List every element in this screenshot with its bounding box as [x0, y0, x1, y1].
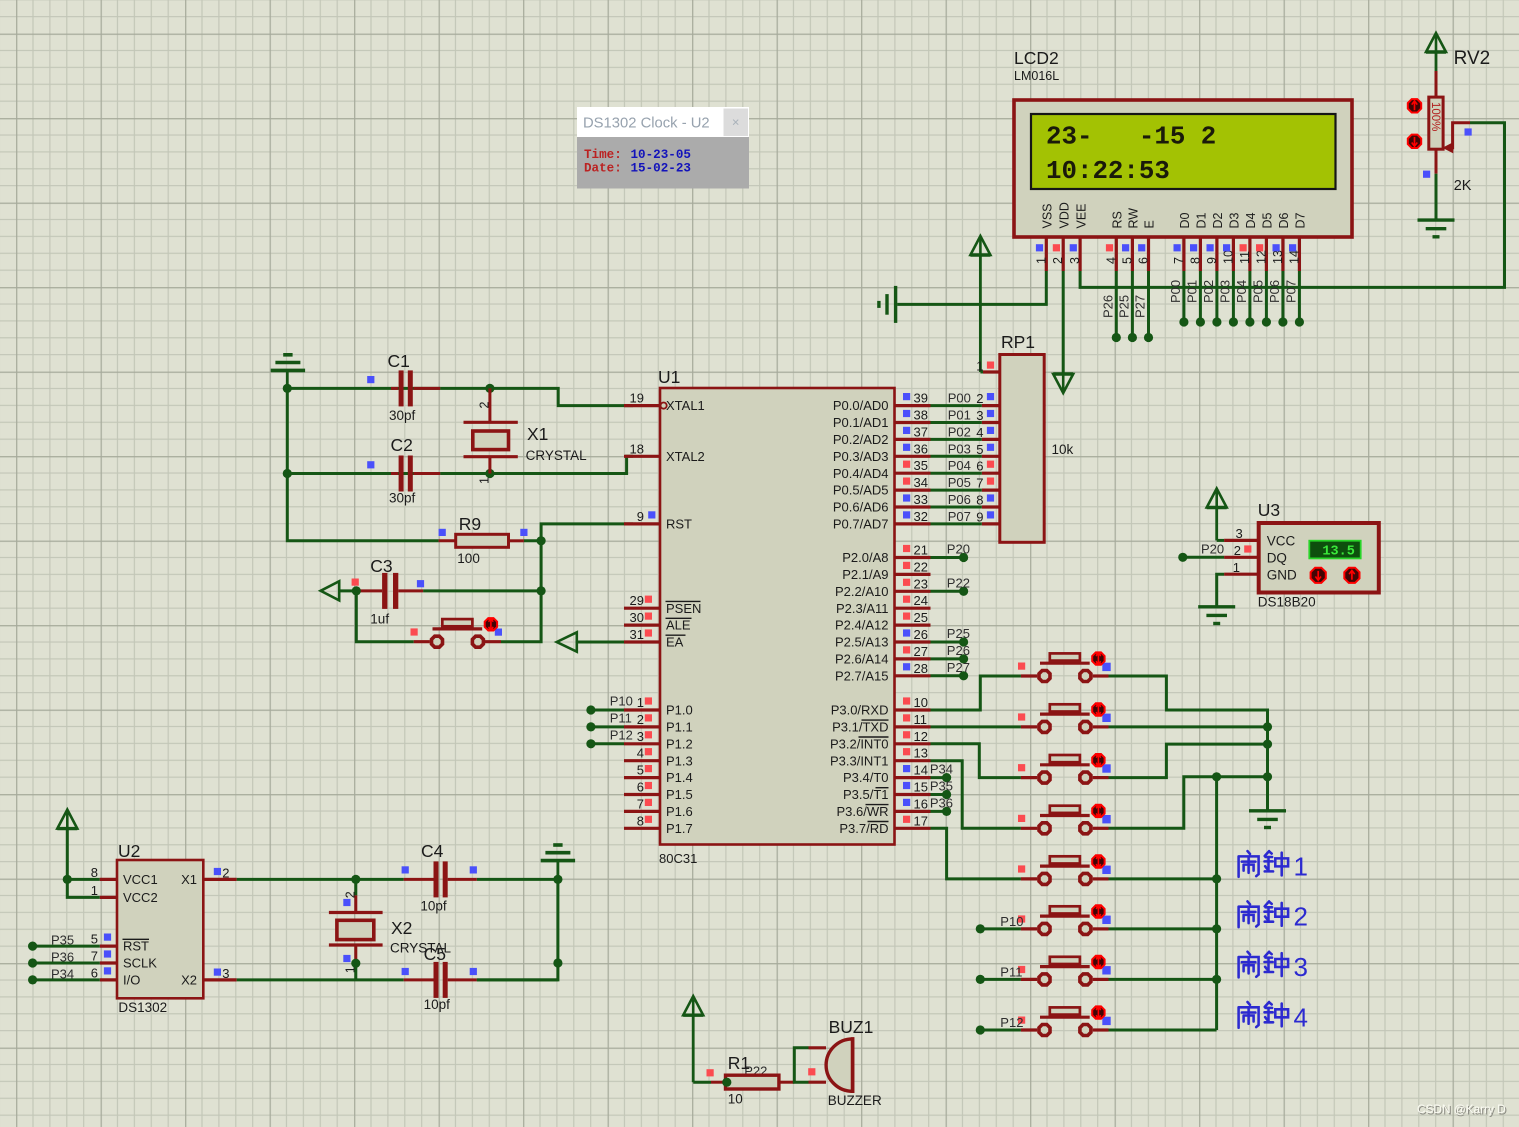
svg-text:P3.7/RD: P3.7/RD	[839, 821, 888, 836]
svg-text:4: 4	[1294, 1002, 1308, 1032]
resistor R9	[439, 529, 528, 548]
push button 2	[1018, 703, 1111, 732]
LCD pin 6 (E)	[1137, 220, 1157, 271]
U2 pin 2 (X1)	[181, 865, 237, 887]
svg-text:3: 3	[637, 729, 644, 744]
LCD pin 7 (D0)	[1172, 212, 1192, 271]
svg-text:P03: P03	[948, 441, 971, 456]
U3 pin 3 (VCC)	[1224, 526, 1295, 549]
wire/net P35 (U1 right)	[930, 779, 953, 800]
svg-text:LM016L: LM016L	[1014, 69, 1059, 83]
U1 pin 12 (P3.2/INT0)	[830, 729, 931, 752]
red square (C3 node)	[352, 579, 359, 586]
U1 pin 4 (P1.3)	[624, 746, 693, 769]
wire C3 row	[423, 589, 541, 592]
svg-text:D6: D6	[1277, 212, 1291, 228]
svg-text:2K: 2K	[1454, 178, 1472, 194]
svg-text:1: 1	[1233, 560, 1240, 575]
wire ground bus A	[1266, 727, 1269, 810]
svg-text:15: 15	[914, 780, 928, 795]
svg-text:P0.2/AD2: P0.2/AD2	[833, 432, 889, 447]
svg-text:7: 7	[976, 476, 983, 491]
wire U3 GND to ground	[1217, 574, 1224, 606]
RP1 pin 5	[976, 442, 1000, 457]
svg-text:2: 2	[222, 865, 229, 880]
push button 3	[1018, 754, 1111, 783]
U1 pin 36 (P0.3/AD3)	[833, 441, 931, 464]
junction (bus b5)	[1212, 874, 1221, 883]
wire RV2 to ground	[1435, 174, 1438, 220]
svg-text:6: 6	[976, 459, 983, 474]
svg-text:CSDN @Karry D: CSDN @Karry D	[1417, 1102, 1506, 1116]
svg-text:39: 39	[914, 391, 928, 406]
wire/net P26 (U1 right)	[931, 643, 970, 664]
svg-text:1uf: 1uf	[370, 612, 389, 627]
svg-text:26: 26	[914, 627, 928, 642]
wire power to VCC1/VCC2	[67, 829, 100, 880]
svg-text:27: 27	[914, 644, 928, 659]
wire VEE to RV2 wiper	[1080, 123, 1504, 288]
LCD pin 13 (D6)	[1271, 212, 1291, 271]
wire P3.0 to button1	[931, 676, 1021, 710]
svg-text:Time:: Time:	[584, 148, 622, 162]
wire ground rail down	[477, 879, 558, 980]
svg-text:RS: RS	[1111, 211, 1125, 228]
wire button8 right	[1109, 1029, 1217, 1032]
svg-text:P0.7/AD7: P0.7/AD7	[833, 517, 889, 532]
svg-text:P04: P04	[948, 458, 971, 473]
LCD pin 10 (D3)	[1221, 212, 1241, 271]
junction (C3 right)	[537, 586, 546, 595]
U1 pin 21 (P2.0/A8)	[842, 543, 930, 566]
net label alarm 闹钟3	[1239, 952, 1308, 982]
push button 4	[1018, 805, 1111, 834]
wire/net P04 (LCD D4)	[1234, 271, 1255, 327]
svg-text:P3.5/T1: P3.5/T1	[843, 787, 889, 802]
ground (buttons)	[1249, 809, 1286, 812]
svg-text:P20: P20	[1201, 542, 1224, 557]
wire/net P06 (LCD D6)	[1267, 271, 1288, 327]
wire/net P25 (U1 right)	[931, 626, 970, 647]
U1 pin 30 (ALE)	[624, 610, 692, 633]
wire power to RP1 pin1	[980, 371, 983, 374]
wire/net P11 (button)	[976, 964, 1023, 984]
wire U1 P0.5 to RP1 / net P05	[931, 475, 982, 490]
U1 pin 9 (RST)	[624, 509, 692, 532]
wire button7 right	[1109, 978, 1217, 981]
wire C1 row to XTAL1	[287, 387, 440, 390]
svg-text:EA: EA	[666, 635, 684, 650]
junction (bus b6)	[1212, 924, 1221, 933]
U1 pin 8 (P1.7)	[624, 813, 693, 836]
wire P3.2 to button3	[931, 744, 1021, 778]
svg-text:D5: D5	[1261, 212, 1275, 228]
wire U1 P0.7 to RP1 / net P07	[931, 509, 982, 524]
capacitor C5	[402, 962, 477, 998]
junction (R9 node)	[537, 536, 546, 545]
wire button3 right	[1109, 744, 1268, 778]
svg-text:P06: P06	[948, 492, 971, 507]
wire/net P10 (button)	[976, 914, 1024, 934]
U1 pin 26 (P2.5/A13)	[835, 627, 931, 650]
svg-text:Date:: Date:	[584, 162, 622, 176]
U3 pin 2 (DQ)	[1224, 543, 1287, 566]
svg-text:X1: X1	[181, 872, 197, 887]
U1 pin 11 (P3.1/TXD)	[832, 712, 930, 735]
U1 pin 7 (P1.6)	[624, 796, 693, 819]
svg-text:P0.1/AD1: P0.1/AD1	[833, 415, 889, 430]
junction (bus b7)	[1212, 975, 1221, 984]
U2 pin 6 (I/O)	[91, 965, 141, 987]
popup window DS1302 Clock - U2	[577, 107, 749, 189]
junction (gnd/X1 row)	[553, 875, 562, 884]
U3 down button	[1311, 568, 1326, 583]
svg-text:RST: RST	[666, 517, 692, 532]
svg-text:2: 2	[478, 402, 492, 409]
wire power to U3 VCC	[1217, 539, 1224, 542]
svg-text:1: 1	[637, 695, 644, 710]
svg-text:10:22:53: 10:22:53	[1046, 157, 1170, 186]
svg-text:RW: RW	[1127, 208, 1141, 229]
wire/net P25 (LCD)	[1116, 271, 1137, 342]
LCD pin 3 (VEE)	[1068, 203, 1088, 271]
U1 pin 39 (P0.0/AD0)	[833, 391, 931, 414]
svg-text:P04: P04	[1234, 280, 1249, 303]
svg-text:D1: D1	[1195, 212, 1209, 228]
svg-text:23: 23	[914, 576, 928, 591]
wire/net P01 (LCD D1)	[1184, 271, 1205, 327]
U2 pin 8 (VCC1)	[91, 865, 158, 887]
wire/net P07 (LCD D7)	[1283, 271, 1304, 327]
RP1 pin 3	[976, 408, 1000, 423]
svg-text:P22: P22	[947, 575, 970, 590]
wire/net P22 (U1 right)	[931, 575, 970, 596]
svg-text:22: 22	[914, 559, 928, 574]
svg-text:P0.5/AD5: P0.5/AD5	[833, 483, 889, 498]
svg-text:P3.2/INT0: P3.2/INT0	[830, 736, 889, 751]
svg-text:P06: P06	[1267, 280, 1282, 303]
svg-text:6: 6	[637, 780, 644, 795]
junction (C2/X1)	[485, 469, 494, 478]
svg-text:VCC2: VCC2	[123, 890, 158, 905]
blue square (RV2 wiper)	[1465, 128, 1472, 135]
RP1 pin 1	[976, 359, 1000, 374]
svg-text:P0.0/AD0: P0.0/AD0	[833, 398, 889, 413]
svg-text:1: 1	[976, 359, 983, 374]
U3 temperature display	[1309, 541, 1360, 560]
svg-text:29: 29	[630, 593, 644, 608]
svg-text:8: 8	[637, 813, 644, 828]
U1 pin 10 (P3.0/RXD)	[831, 695, 931, 718]
LCD pin 12 (D5)	[1254, 212, 1274, 271]
ground (LCD VSS)	[894, 286, 897, 323]
svg-text:11: 11	[914, 712, 928, 727]
svg-text:P05: P05	[948, 475, 971, 490]
svg-text:25: 25	[914, 610, 928, 625]
capacitor C2	[367, 456, 440, 492]
U1 pin 19 (XTAL1)	[624, 391, 705, 414]
svg-text:38: 38	[914, 408, 928, 423]
U1 pin 35 (P0.4/AD4)	[833, 458, 931, 481]
ground (RV2)	[1418, 218, 1455, 221]
RP1 pin 9	[976, 509, 1000, 524]
wire/net P20 (U3 DQ)	[1178, 542, 1224, 562]
LCD pin 5 (RW)	[1120, 208, 1140, 271]
wire P3.7 to button5	[931, 828, 1021, 879]
U1 pin 17 (P3.7/RD)	[839, 813, 930, 836]
wire U1 P0.3 to RP1 / net P03	[931, 441, 982, 456]
wire/net P12 (button)	[976, 1015, 1024, 1035]
LCD pin 14 (D7)	[1287, 212, 1307, 271]
junction (bus b4)	[1263, 772, 1272, 781]
svg-text:16: 16	[914, 796, 928, 811]
wire P3.3 to button4	[931, 761, 1021, 829]
svg-text:34: 34	[914, 475, 928, 490]
svg-text:13: 13	[914, 746, 928, 761]
svg-text:9: 9	[1205, 257, 1219, 264]
lcd screen	[1031, 114, 1336, 189]
svg-text:P1.5: P1.5	[666, 787, 693, 802]
svg-text:33: 33	[914, 492, 928, 507]
svg-text:8: 8	[1188, 257, 1202, 264]
svg-text:P1.0: P1.0	[666, 703, 693, 718]
push button 1	[1018, 652, 1111, 681]
wire/net P27 (U1 right)	[931, 660, 970, 681]
svg-text:4: 4	[1104, 257, 1118, 264]
mcu U1 body	[660, 388, 895, 845]
svg-text:35: 35	[914, 458, 928, 473]
svg-text:10-23-05: 10-23-05	[631, 148, 691, 162]
U1 pin 37 (P0.2/AD2)	[833, 424, 931, 447]
svg-text:P05: P05	[1250, 280, 1265, 303]
svg-text:P3.6/WR: P3.6/WR	[836, 804, 888, 819]
svg-text:3: 3	[1235, 526, 1242, 541]
svg-text:P3.1/TXD: P3.1/TXD	[832, 720, 888, 735]
svg-text:P2.6/A14: P2.6/A14	[835, 652, 889, 667]
ground (U3)	[1198, 605, 1235, 608]
svg-text:P02: P02	[1201, 280, 1216, 303]
U1 pin 3 (P1.2)	[624, 729, 693, 752]
svg-text:17: 17	[914, 813, 928, 828]
svg-text:18: 18	[630, 441, 644, 456]
junction (VCC1)	[63, 875, 72, 884]
sensor U3 body	[1259, 523, 1379, 593]
push button 6	[1018, 905, 1111, 934]
junction (X2 bottom)	[351, 959, 360, 968]
wire left bus (gnd to R9)	[287, 388, 438, 540]
svg-text:CRYSTAL: CRYSTAL	[526, 448, 588, 463]
svg-text:VCC: VCC	[1267, 534, 1296, 549]
U1 pin 14 (P3.4/T0)	[843, 763, 931, 786]
svg-text:P26: P26	[947, 643, 970, 658]
svg-text:P00: P00	[1168, 280, 1183, 303]
svg-text:5: 5	[976, 442, 983, 457]
RP1 pin 8	[976, 493, 1000, 508]
input terminal arrow (C3)	[321, 581, 357, 600]
svg-text:32: 32	[914, 509, 928, 524]
svg-text:12: 12	[914, 729, 928, 744]
svg-text:X1: X1	[527, 424, 548, 444]
svg-text:37: 37	[914, 424, 928, 439]
U1 pin 33 (P0.6/AD6)	[833, 492, 931, 515]
svg-text:P2.3/A11: P2.3/A11	[836, 601, 889, 616]
svg-text:PSEN: PSEN	[666, 601, 701, 616]
svg-text:5: 5	[1120, 257, 1134, 264]
LCD pin 2 (VDD)	[1051, 202, 1071, 271]
svg-text:GND: GND	[1267, 567, 1297, 582]
svg-text:P25: P25	[947, 626, 970, 641]
U3 pin 1 (GND)	[1224, 560, 1297, 583]
svg-text:P12: P12	[610, 727, 633, 742]
U2 pin 5 (RST)	[91, 932, 149, 954]
watermark CSDN @Karry D	[1417, 1102, 1507, 1117]
svg-text:X2: X2	[391, 918, 412, 938]
U1 pin 25 (P2.4/A12)	[835, 610, 931, 633]
wire X2 bottom to row	[354, 963, 357, 980]
svg-text:P27: P27	[1133, 295, 1148, 318]
svg-text:P2.2/A10: P2.2/A10	[835, 584, 889, 599]
wire U1 P0.1 to RP1 / net P01	[931, 408, 982, 423]
wire reset button to R9 node	[501, 591, 541, 642]
svg-text:30: 30	[630, 610, 644, 625]
svg-text:10: 10	[914, 695, 928, 710]
svg-text:D0: D0	[1178, 212, 1192, 228]
net label alarm 闹钟1	[1239, 851, 1308, 881]
power arrow down (LCD VDD)	[1053, 271, 1073, 393]
svg-text:24: 24	[914, 593, 928, 608]
power arrow (RP1 pin1)	[970, 236, 990, 372]
U1 pin 32 (P0.7/AD7)	[833, 509, 931, 532]
svg-text:6: 6	[91, 965, 98, 980]
junction (C3 left)	[352, 586, 361, 595]
capacitor C4	[402, 861, 477, 897]
wire/net P02 (LCD D2)	[1201, 271, 1222, 327]
wire U2 X2 row	[237, 978, 404, 981]
U1 pin 1 (P1.0)	[624, 695, 693, 718]
svg-text:13: 13	[1271, 250, 1285, 264]
svg-text:100%: 100%	[1429, 102, 1441, 131]
svg-text:SCLK: SCLK	[123, 956, 157, 971]
svg-text:1: 1	[91, 883, 98, 898]
push button 5	[1018, 855, 1111, 884]
U1 pin 38 (P0.1/AD1)	[833, 408, 931, 431]
wire/net P34 (U1 right)	[930, 762, 953, 783]
svg-text:P12: P12	[1000, 1015, 1023, 1030]
wire EA arrow to pin31	[577, 641, 633, 644]
junction (gnd rail)	[553, 958, 562, 967]
svg-text:P10: P10	[1000, 914, 1023, 929]
svg-text:R1: R1	[728, 1053, 750, 1073]
svg-text:LCD2: LCD2	[1014, 48, 1059, 68]
wire R9 to RST	[524, 539, 541, 542]
crystal X2	[329, 879, 383, 973]
svg-text:3: 3	[222, 966, 229, 981]
wire button5 right	[1109, 877, 1217, 880]
svg-text:P1.2: P1.2	[666, 736, 693, 751]
svg-text:9: 9	[637, 509, 644, 524]
blue square (RV2 bottom)	[1423, 171, 1430, 178]
svg-text:DS1302: DS1302	[118, 1000, 167, 1015]
svg-text:P34: P34	[51, 966, 74, 981]
svg-text:DQ: DQ	[1267, 550, 1287, 565]
U3 up button	[1344, 568, 1359, 583]
svg-text:19: 19	[630, 391, 644, 406]
crystal X1	[464, 388, 518, 484]
svg-text:36: 36	[914, 441, 928, 456]
ground (oscillator rail)	[541, 845, 575, 879]
buzzer BUZ1	[809, 1037, 853, 1093]
svg-text:2: 2	[976, 391, 983, 406]
lcd LCD2 body	[1014, 100, 1352, 237]
wire R9 node down to C3 row	[540, 541, 543, 591]
wire button4 right	[1109, 777, 1268, 829]
U1 pin 18 (XTAL2)	[624, 441, 705, 464]
wire/net P36 (U1 right)	[930, 795, 953, 816]
svg-text:1: 1	[1294, 851, 1308, 881]
net label alarm 闹钟4	[1239, 1002, 1308, 1032]
U1 pin 23 (P2.2/A10)	[835, 576, 931, 599]
wire P3.1 to button2	[931, 725, 1021, 728]
wire button6 right	[1109, 927, 1217, 930]
svg-text:4: 4	[976, 425, 983, 440]
svg-text:P2.1/A9: P2.1/A9	[842, 567, 888, 582]
svg-text:100: 100	[457, 551, 480, 566]
svg-text:14: 14	[1287, 250, 1301, 264]
power arrow (BUZ1)	[683, 996, 703, 1082]
svg-text:80C31: 80C31	[659, 851, 697, 866]
wire button1 right	[1109, 676, 1268, 727]
svg-text:1: 1	[1034, 257, 1048, 264]
svg-text:2: 2	[637, 712, 644, 727]
LCD pin 9 (D2)	[1205, 212, 1225, 271]
LCD pin 8 (D1)	[1188, 212, 1208, 271]
svg-text:2: 2	[343, 891, 357, 898]
wire/net P34 (U2)	[28, 966, 100, 984]
svg-text:7: 7	[91, 949, 98, 964]
U2 pin 3 (X2)	[181, 966, 237, 988]
svg-text:3: 3	[1068, 257, 1082, 264]
wire U1 P0.6 to RP1 / net P06	[931, 492, 982, 507]
svg-text:P34: P34	[930, 762, 953, 777]
svg-text:C4: C4	[421, 841, 444, 861]
wire/net P03 (LCD D3)	[1217, 271, 1238, 327]
junction (bus b3)	[1263, 740, 1272, 749]
wire buzzer pins	[794, 1048, 808, 1082]
svg-text:XTAL1: XTAL1	[666, 398, 705, 413]
wire U1 P0.2 to RP1 / net P02	[931, 424, 982, 439]
svg-text:28: 28	[914, 661, 928, 676]
svg-text:P26: P26	[1100, 295, 1115, 318]
U1 pin 31 (EA)	[624, 627, 686, 650]
U1 pin 29 (PSEN)	[624, 593, 701, 616]
svg-text:10k: 10k	[1052, 442, 1074, 457]
svg-text:8: 8	[976, 493, 983, 508]
svg-text:P25: P25	[1116, 295, 1131, 318]
svg-text:ALE: ALE	[666, 618, 691, 633]
capacitor C1	[367, 370, 440, 406]
junction (bus/C2)	[283, 469, 292, 478]
svg-text:3: 3	[1294, 952, 1308, 982]
svg-text:C5: C5	[424, 944, 446, 964]
wire U1 P0.4 to RP1 / net P04	[931, 458, 982, 473]
svg-text:P0.3/AD3: P0.3/AD3	[833, 449, 889, 464]
wire C2 row to XTAL2	[287, 472, 440, 475]
RV2 down button	[1408, 135, 1421, 148]
resistor pack RP1 body	[1000, 355, 1044, 543]
svg-text:P36: P36	[51, 950, 74, 965]
svg-text:6: 6	[1137, 257, 1151, 264]
svg-text:23- -15 2: 23- -15 2	[1046, 123, 1216, 152]
